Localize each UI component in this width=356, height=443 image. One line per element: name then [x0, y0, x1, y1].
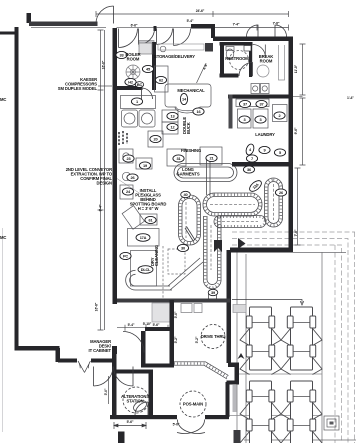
door boiler arc — [142, 88, 153, 99]
wall boiler room east — [152, 42, 156, 90]
finishing press 2 — [200, 147, 222, 165]
svg-text:DLCL: DLCL — [141, 267, 151, 272]
door storefront west right arc — [114, 367, 134, 387]
parking row divider — [237, 373, 322, 375]
dc machine 17A — [128, 229, 160, 247]
laundry shelf top — [236, 99, 269, 107]
svg-text:20: 20 — [154, 137, 158, 142]
svg-text:17A: 17A — [140, 235, 147, 240]
conveyor left loop slats — [180, 197, 199, 244]
tag 37 a — [239, 100, 250, 107]
drive lane line west — [236, 252, 238, 443]
wall counter front — [117, 299, 230, 303]
tag 30 — [177, 244, 188, 251]
spotting machine 3 — [120, 185, 133, 199]
pilaster drive lane — [234, 430, 241, 443]
tag 21 — [206, 154, 217, 161]
tag DLCL — [138, 266, 153, 274]
washer extractor 1 — [122, 110, 138, 127]
top-left wall face line — [31, 27, 106, 29]
dashed line vertical left — [162, 246, 164, 298]
conveyor lower horizontal track — [136, 286, 173, 290]
wall restroom north — [220, 42, 253, 46]
svg-text:5'-6": 5'-6" — [153, 323, 160, 327]
left lower dim line — [108, 376, 110, 404]
svg-text:11'-0": 11'-0" — [294, 64, 298, 73]
door neighbour angled left — [78, 361, 85, 373]
lot dashed line inner — [232, 245, 342, 443]
top dim line A — [96, 11, 289, 17]
wall restroom east — [249, 42, 252, 77]
laundry machine 2 — [253, 109, 268, 128]
pickup counter slats — [174, 364, 228, 378]
door top-left exterior leaf — [96, 6, 114, 24]
conveyor center loop slats — [205, 195, 261, 215]
svg-text:FINISHING: FINISHING — [181, 148, 201, 153]
tag H2 — [125, 78, 136, 85]
svg-text:9'-4": 9'-4" — [99, 204, 103, 211]
conveyor lower band outer — [214, 216, 266, 228]
shelf unit oval1 — [121, 96, 156, 109]
storage dark cabinet — [205, 43, 213, 52]
wall restroom south — [220, 74, 239, 78]
nested square marker mid — [327, 419, 336, 427]
tag 62 — [155, 76, 166, 83]
wall drive-thru east upper — [227, 250, 232, 363]
svg-text:STORAGE/DELIVERY: STORAGE/DELIVERY — [154, 54, 195, 59]
wall fitting room north — [145, 327, 174, 331]
press arc detail — [175, 107, 199, 113]
top dim line C storefront — [117, 27, 192, 29]
svg-text:7: 7 — [251, 156, 253, 161]
conveyor feed track vertical — [207, 158, 211, 195]
breakroom counter — [279, 45, 285, 80]
wall fitting room south — [141, 364, 174, 368]
conveyor lower band slats — [216, 217, 265, 226]
black marker flag — [238, 233, 246, 249]
tag BC — [135, 82, 143, 88]
wall drive-thru east lower — [226, 382, 230, 417]
svg-text:5'-6": 5'-6" — [127, 420, 134, 424]
wall laundry south — [232, 162, 293, 167]
wall neighbour storefront east — [91, 359, 112, 363]
door entry north left — [247, 25, 259, 37]
svg-text:MECHANICAL: MECHANICAL — [177, 88, 205, 93]
svg-text:STATION: STATION — [126, 399, 143, 404]
svg-text:37: 37 — [243, 102, 247, 107]
tag 2 — [274, 112, 285, 119]
tag 14 — [180, 93, 187, 104]
door break room arc — [253, 45, 265, 58]
tag 13 — [167, 112, 178, 119]
spotting machine 1 — [119, 149, 133, 163]
manager dim line — [117, 325, 174, 331]
right dim line 1 — [300, 44, 306, 95]
wall boiler room south — [117, 86, 143, 90]
wall left demising — [15, 27, 19, 348]
long garments rack outer — [174, 164, 237, 182]
small north arrow lower — [238, 353, 245, 359]
svg-text:BC: BC — [137, 82, 143, 87]
svg-text:7'-8": 7'-8" — [273, 22, 280, 26]
conveyor lower-left U inner — [130, 274, 136, 286]
svg-text:40: 40 — [184, 192, 188, 197]
tag 24 — [122, 188, 133, 195]
svg-text:GARMENTS: GARMENTS — [176, 172, 199, 177]
svg-text:3'-2": 3'-2" — [195, 336, 199, 343]
breakroom table — [257, 65, 269, 77]
svg-text:37: 37 — [260, 102, 264, 107]
svg-text:POS-MAIN: POS-MAIN — [183, 402, 203, 407]
laundry machine 1 — [238, 109, 252, 128]
wall laundry west hatched — [229, 95, 233, 129]
sink restroom — [244, 46, 251, 52]
laundry machine 3 — [273, 105, 288, 122]
tag 31 — [173, 155, 184, 162]
tag 20 — [150, 135, 161, 142]
svg-text:30: 30 — [181, 246, 185, 251]
svg-text:3'-2": 3'-2" — [174, 336, 178, 343]
svg-text:7'-0": 7'-0" — [294, 229, 298, 236]
pickup counter angled — [174, 362, 229, 379]
wall top step connector — [211, 24, 215, 38]
wall top-left cap column — [27, 13, 32, 23]
storage shelving — [158, 44, 204, 50]
door neighbour angled right — [85, 361, 91, 373]
left dim line interior 2 — [104, 30, 106, 330]
conveyor U to counter connectors — [209, 292, 217, 299]
wall hall east — [170, 300, 175, 367]
counter return desk — [181, 304, 192, 313]
svg-text:7'-4": 7'-4" — [233, 23, 240, 27]
sidewalk line lower right — [229, 415, 322, 417]
drive lane east edge — [321, 252, 323, 443]
door storage double left — [119, 29, 138, 48]
tag 61 — [145, 216, 156, 223]
conveyor long U inner — [207, 216, 218, 285]
drive-thru shelf desk — [233, 305, 246, 313]
car parked row1 col2 — [281, 307, 322, 375]
top dim line B — [213, 25, 289, 31]
left dim line interior — [98, 30, 104, 330]
nested square marker inner — [330, 422, 334, 425]
conveyor long U outer — [204, 216, 222, 289]
kaeser leader line — [98, 85, 112, 87]
conveyor center loop outer — [203, 193, 262, 216]
svg-text:DESIGN: DESIGN — [97, 181, 113, 186]
wall building south — [230, 248, 293, 253]
hatch strip by door lower — [233, 385, 237, 412]
tag 26 spotting — [127, 174, 138, 181]
tag 16 — [193, 108, 204, 115]
lot dashed line mid — [232, 239, 348, 443]
sidewalk bottom line — [244, 439, 356, 441]
door storage2 left — [157, 29, 173, 45]
right dim line 3 — [295, 168, 301, 245]
tag 7 — [246, 155, 257, 162]
svg-text:24'-6": 24'-6" — [196, 9, 205, 13]
svg-text:9'-6": 9'-6" — [294, 127, 298, 134]
svg-text:RESTROOM: RESTROOM — [225, 56, 249, 61]
wall drive-thru jog out — [228, 363, 239, 368]
pos-main dashed circle — [180, 391, 206, 417]
tag 19 — [139, 162, 150, 169]
svg-text:MC: MC — [0, 235, 6, 240]
long garments rack inner — [178, 167, 234, 178]
lot dashed line innermost — [334, 245, 336, 443]
door entry north right — [275, 25, 287, 37]
tag 9 — [259, 146, 270, 153]
tag 5 — [274, 149, 285, 156]
pilaster storefront 1 — [118, 432, 125, 443]
conveyor right tall slats — [266, 180, 281, 226]
svg-text:5'-10": 5'-10" — [143, 322, 152, 326]
right dim line 2 — [300, 98, 306, 165]
tag 40 left loop — [181, 191, 191, 197]
conveyor left vertical loop inner — [182, 199, 197, 242]
wall top-left exterior — [29, 22, 98, 27]
drive lane divider — [245, 254, 247, 443]
wall restroom west — [220, 42, 224, 77]
wall drive-thru jog in — [227, 381, 240, 385]
conveyor right tall loop outer — [265, 178, 283, 227]
manager desk — [152, 303, 170, 322]
washer extractor 2 — [139, 110, 155, 127]
tag 26 conveyor — [275, 189, 286, 196]
tag 3 a — [239, 116, 250, 123]
wall bottom-left jog — [56, 348, 61, 362]
tag 33 boiler — [116, 51, 127, 58]
svg-text:PC: PC — [123, 254, 128, 259]
vestibule center post — [154, 26, 157, 31]
tag PC — [120, 252, 131, 259]
spotting board 2 — [140, 214, 157, 225]
door main entry south left — [177, 420, 205, 434]
buck machine boxes — [162, 110, 178, 122]
tag chair alterations — [132, 399, 149, 414]
svg-text:SM DUPLEX MODEL: SM DUPLEX MODEL — [58, 86, 98, 91]
boiler round unit — [126, 65, 140, 79]
wall drive-thru east mid — [235, 364, 240, 382]
conveyor lower-left U outer — [126, 270, 136, 290]
restroom turning circle — [230, 51, 249, 70]
car parked row2 col2 — [281, 381, 322, 443]
tag 13A rotated — [248, 179, 264, 194]
big press double buck — [165, 84, 211, 111]
laundry wall tick right — [293, 96, 303, 98]
counter return desk 2 — [194, 304, 202, 313]
smoke marker top storage — [160, 46, 166, 52]
dashed future equip left — [168, 249, 185, 274]
wall fitting room west — [141, 331, 146, 367]
wall top main segment right of doors — [191, 24, 213, 29]
conveyor left vertical loop outer — [179, 195, 201, 245]
wall laundry north — [228, 95, 293, 99]
car parked row2 col1 — [240, 381, 281, 443]
lot dashed line outer — [232, 232, 355, 443]
svg-text:CLEANING: CLEANING — [154, 245, 159, 266]
svg-text:LAUNDRY: LAUNDRY — [255, 132, 275, 137]
svg-text:H = 3' 6" W: H = 3' 6" W — [138, 206, 159, 211]
tag 3 b — [255, 116, 266, 123]
svg-text:MC: MC — [0, 97, 6, 102]
black marker M — [214, 240, 222, 252]
drive thru dashed circle — [201, 325, 226, 349]
wall storefront south east — [205, 415, 229, 419]
alterations dashed circle — [123, 387, 149, 413]
wall tenant left lower — [112, 354, 117, 419]
drive lane arrow line — [232, 300, 304, 306]
dc machine DLCL — [131, 251, 157, 287]
water heater — [139, 43, 152, 54]
tag 4 — [245, 143, 256, 156]
tag 17A — [136, 234, 150, 242]
toilet restroom — [226, 47, 234, 60]
door manager arc — [123, 332, 144, 353]
breakroom washer dryer — [251, 84, 269, 94]
svg-text:16'-8": 16'-8" — [95, 302, 99, 311]
conveyor dashed centerlines — [186, 184, 274, 270]
tag 36 — [243, 166, 254, 173]
door storage2 right — [174, 29, 191, 46]
spotting machine small circle — [122, 172, 130, 180]
wall neighbour storefront west — [58, 359, 77, 363]
vestibule floor top — [139, 41, 154, 47]
svg-text:5'-0": 5'-0" — [173, 423, 180, 427]
wall right exterior — [289, 38, 294, 252]
wall left stub to edge — [0, 32, 15, 35]
wall top right section — [213, 37, 293, 42]
conveyor long U slats — [205, 216, 219, 288]
spotting board angled — [122, 206, 144, 230]
wall tenant demising x113 — [113, 28, 118, 304]
svg-text:3'-0": 3'-0" — [174, 311, 178, 318]
wall alterations north — [116, 370, 153, 374]
wall tenant left storefront pier — [112, 346, 117, 354]
svg-text:1'-4": 1'-4" — [347, 96, 354, 100]
svg-text:ROOM: ROOM — [127, 57, 140, 62]
door alterations arc — [135, 402, 148, 415]
tag 45 — [142, 65, 153, 72]
svg-text:5'-4": 5'-4" — [187, 19, 194, 23]
tag 12 — [167, 123, 178, 130]
tag 23 — [123, 155, 134, 162]
svg-text:ROOM: ROOM — [260, 59, 273, 64]
bottom dim with arrows — [114, 422, 146, 429]
property line far left — [2, 228, 4, 432]
wall bottom-left horizontal — [15, 346, 60, 351]
wall alterations east — [149, 370, 154, 419]
car parked row1 col1 — [240, 307, 281, 375]
svg-text:6'-6": 6'-6" — [131, 24, 138, 28]
conveyor diagonal track — [168, 258, 203, 290]
vent dashes — [119, 131, 127, 146]
door main entry south right — [177, 420, 205, 434]
svg-text:16'-6": 16'-6" — [102, 60, 106, 69]
door storage double right — [139, 29, 155, 45]
conveyor right tall loop inner — [268, 182, 279, 224]
nested square marker outer — [324, 416, 339, 430]
door storefront west left arc — [94, 367, 114, 387]
svg-text:5'-4": 5'-4" — [128, 323, 135, 327]
svg-text:IT CABINET: IT CABINET — [89, 348, 112, 353]
conveyor center loop inner — [207, 197, 259, 213]
svg-text:BUCK: BUCK — [186, 122, 191, 134]
drive lane entry line — [293, 252, 346, 254]
compressor unit rect — [155, 66, 169, 92]
conveyor note leader — [113, 176, 150, 200]
spotting machine 2 — [136, 158, 152, 169]
tag 39 U bottom — [208, 289, 218, 295]
tag 37 b — [256, 100, 267, 107]
svg-text:3'-0": 3'-0" — [104, 388, 108, 395]
conveyor left loop diagonal — [185, 227, 195, 242]
storage leader diagonal — [197, 64, 206, 83]
svg-text:DRIVE THRU: DRIVE THRU — [201, 334, 226, 339]
finishing press 1 — [167, 149, 186, 166]
door restroom arc — [239, 63, 253, 77]
tag 1 — [131, 98, 142, 105]
wall storefront south west — [110, 415, 177, 419]
